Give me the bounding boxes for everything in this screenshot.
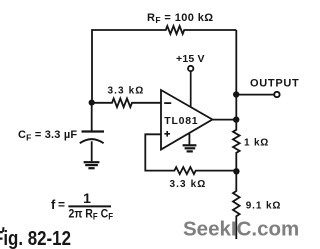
svg-text:f: f bbox=[51, 197, 56, 212]
svg-text:TL081: TL081 bbox=[164, 115, 198, 127]
svg-text:9.1 kΩ: 9.1 kΩ bbox=[246, 200, 282, 211]
svg-text:1: 1 bbox=[83, 190, 91, 206]
svg-text:1 kΩ: 1 kΩ bbox=[244, 138, 269, 149]
svg-text:Fig. 82-12: Fig. 82-12 bbox=[0, 228, 71, 249]
svg-text:3.3 kΩ: 3.3 kΩ bbox=[108, 85, 145, 96]
svg-text:+15 V: +15 V bbox=[176, 53, 205, 65]
svg-text:SeekIC.com: SeekIC.com bbox=[183, 217, 299, 240]
svg-text:=: = bbox=[58, 198, 65, 212]
svg-text:3.3 kΩ: 3.3 kΩ bbox=[170, 179, 207, 190]
svg-text:2π RF CF: 2π RF CF bbox=[69, 207, 114, 222]
svg-text:OUTPUT: OUTPUT bbox=[250, 77, 299, 89]
